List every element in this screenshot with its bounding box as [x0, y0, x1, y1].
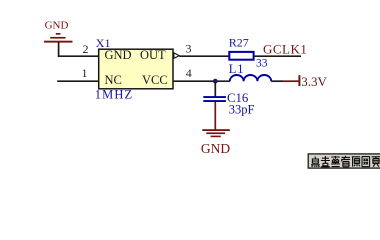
- svg-text:4: 4: [186, 66, 192, 80]
- svg-text:OUT: OUT: [140, 48, 166, 62]
- svg-text:VCC: VCC: [142, 73, 168, 87]
- svg-text:3.3V: 3.3V: [301, 74, 327, 89]
- svg-text:NC: NC: [105, 73, 122, 87]
- svg-text:1MHZ: 1MHZ: [95, 87, 133, 101]
- svg-text:33pF: 33pF: [229, 103, 255, 117]
- svg-text:R27: R27: [229, 36, 249, 50]
- svg-text:1: 1: [82, 66, 88, 80]
- svg-text:2: 2: [83, 42, 89, 56]
- svg-text:GND: GND: [45, 20, 69, 32]
- svg-text:GND: GND: [201, 141, 230, 156]
- svg-text:L1: L1: [229, 62, 245, 76]
- svg-text:3: 3: [186, 41, 192, 55]
- svg-text:33: 33: [256, 57, 268, 69]
- svg-text:GCLK1: GCLK1: [263, 42, 307, 57]
- svg-text:GND: GND: [105, 48, 132, 62]
